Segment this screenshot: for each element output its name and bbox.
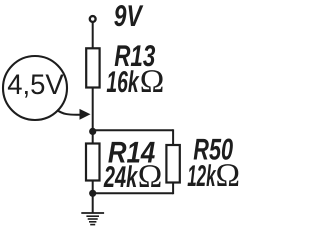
wire node A to R14 xyxy=(92,131,94,145)
voltage bubble 4,5V xyxy=(3,56,67,120)
svg-text:16k: 16k xyxy=(106,66,139,99)
value 16kOhm xyxy=(106,64,164,100)
svg-text:24k: 24k xyxy=(103,161,138,194)
svg-text:Ω: Ω xyxy=(138,159,163,195)
wire bottom horizontal to R50 xyxy=(93,192,173,194)
value 12kOhm xyxy=(187,158,240,194)
arrow from bubble to node A xyxy=(57,109,91,120)
svg-text:Ω: Ω xyxy=(140,64,165,100)
value 24kOhm xyxy=(103,159,162,195)
node B junction dot xyxy=(89,190,96,197)
wire R14 bottom to ground xyxy=(92,180,94,213)
label 9V xyxy=(114,0,144,33)
svg-text:Ω: Ω xyxy=(216,158,241,194)
wire node A to R50 branch (horizontal) xyxy=(93,129,173,131)
wire down to R50 xyxy=(172,129,174,146)
svg-text:12k: 12k xyxy=(187,160,216,193)
node A junction dot xyxy=(89,128,96,135)
label R50 xyxy=(193,133,233,166)
resistor R50 xyxy=(166,145,179,183)
wire R50 bottom xyxy=(172,182,174,195)
resistor R13 xyxy=(86,48,99,87)
terminal 9V xyxy=(90,16,96,22)
wire 9V terminal to R13 xyxy=(92,22,94,49)
wire R13 to node A xyxy=(92,87,94,133)
svg-text:9V: 9V xyxy=(114,0,144,33)
ground xyxy=(81,213,104,225)
label R13 xyxy=(114,40,155,73)
label R14 xyxy=(108,136,156,169)
label 4,5V xyxy=(7,68,64,100)
resistor R14 xyxy=(86,144,100,181)
svg-text:4,5V: 4,5V xyxy=(7,68,64,100)
